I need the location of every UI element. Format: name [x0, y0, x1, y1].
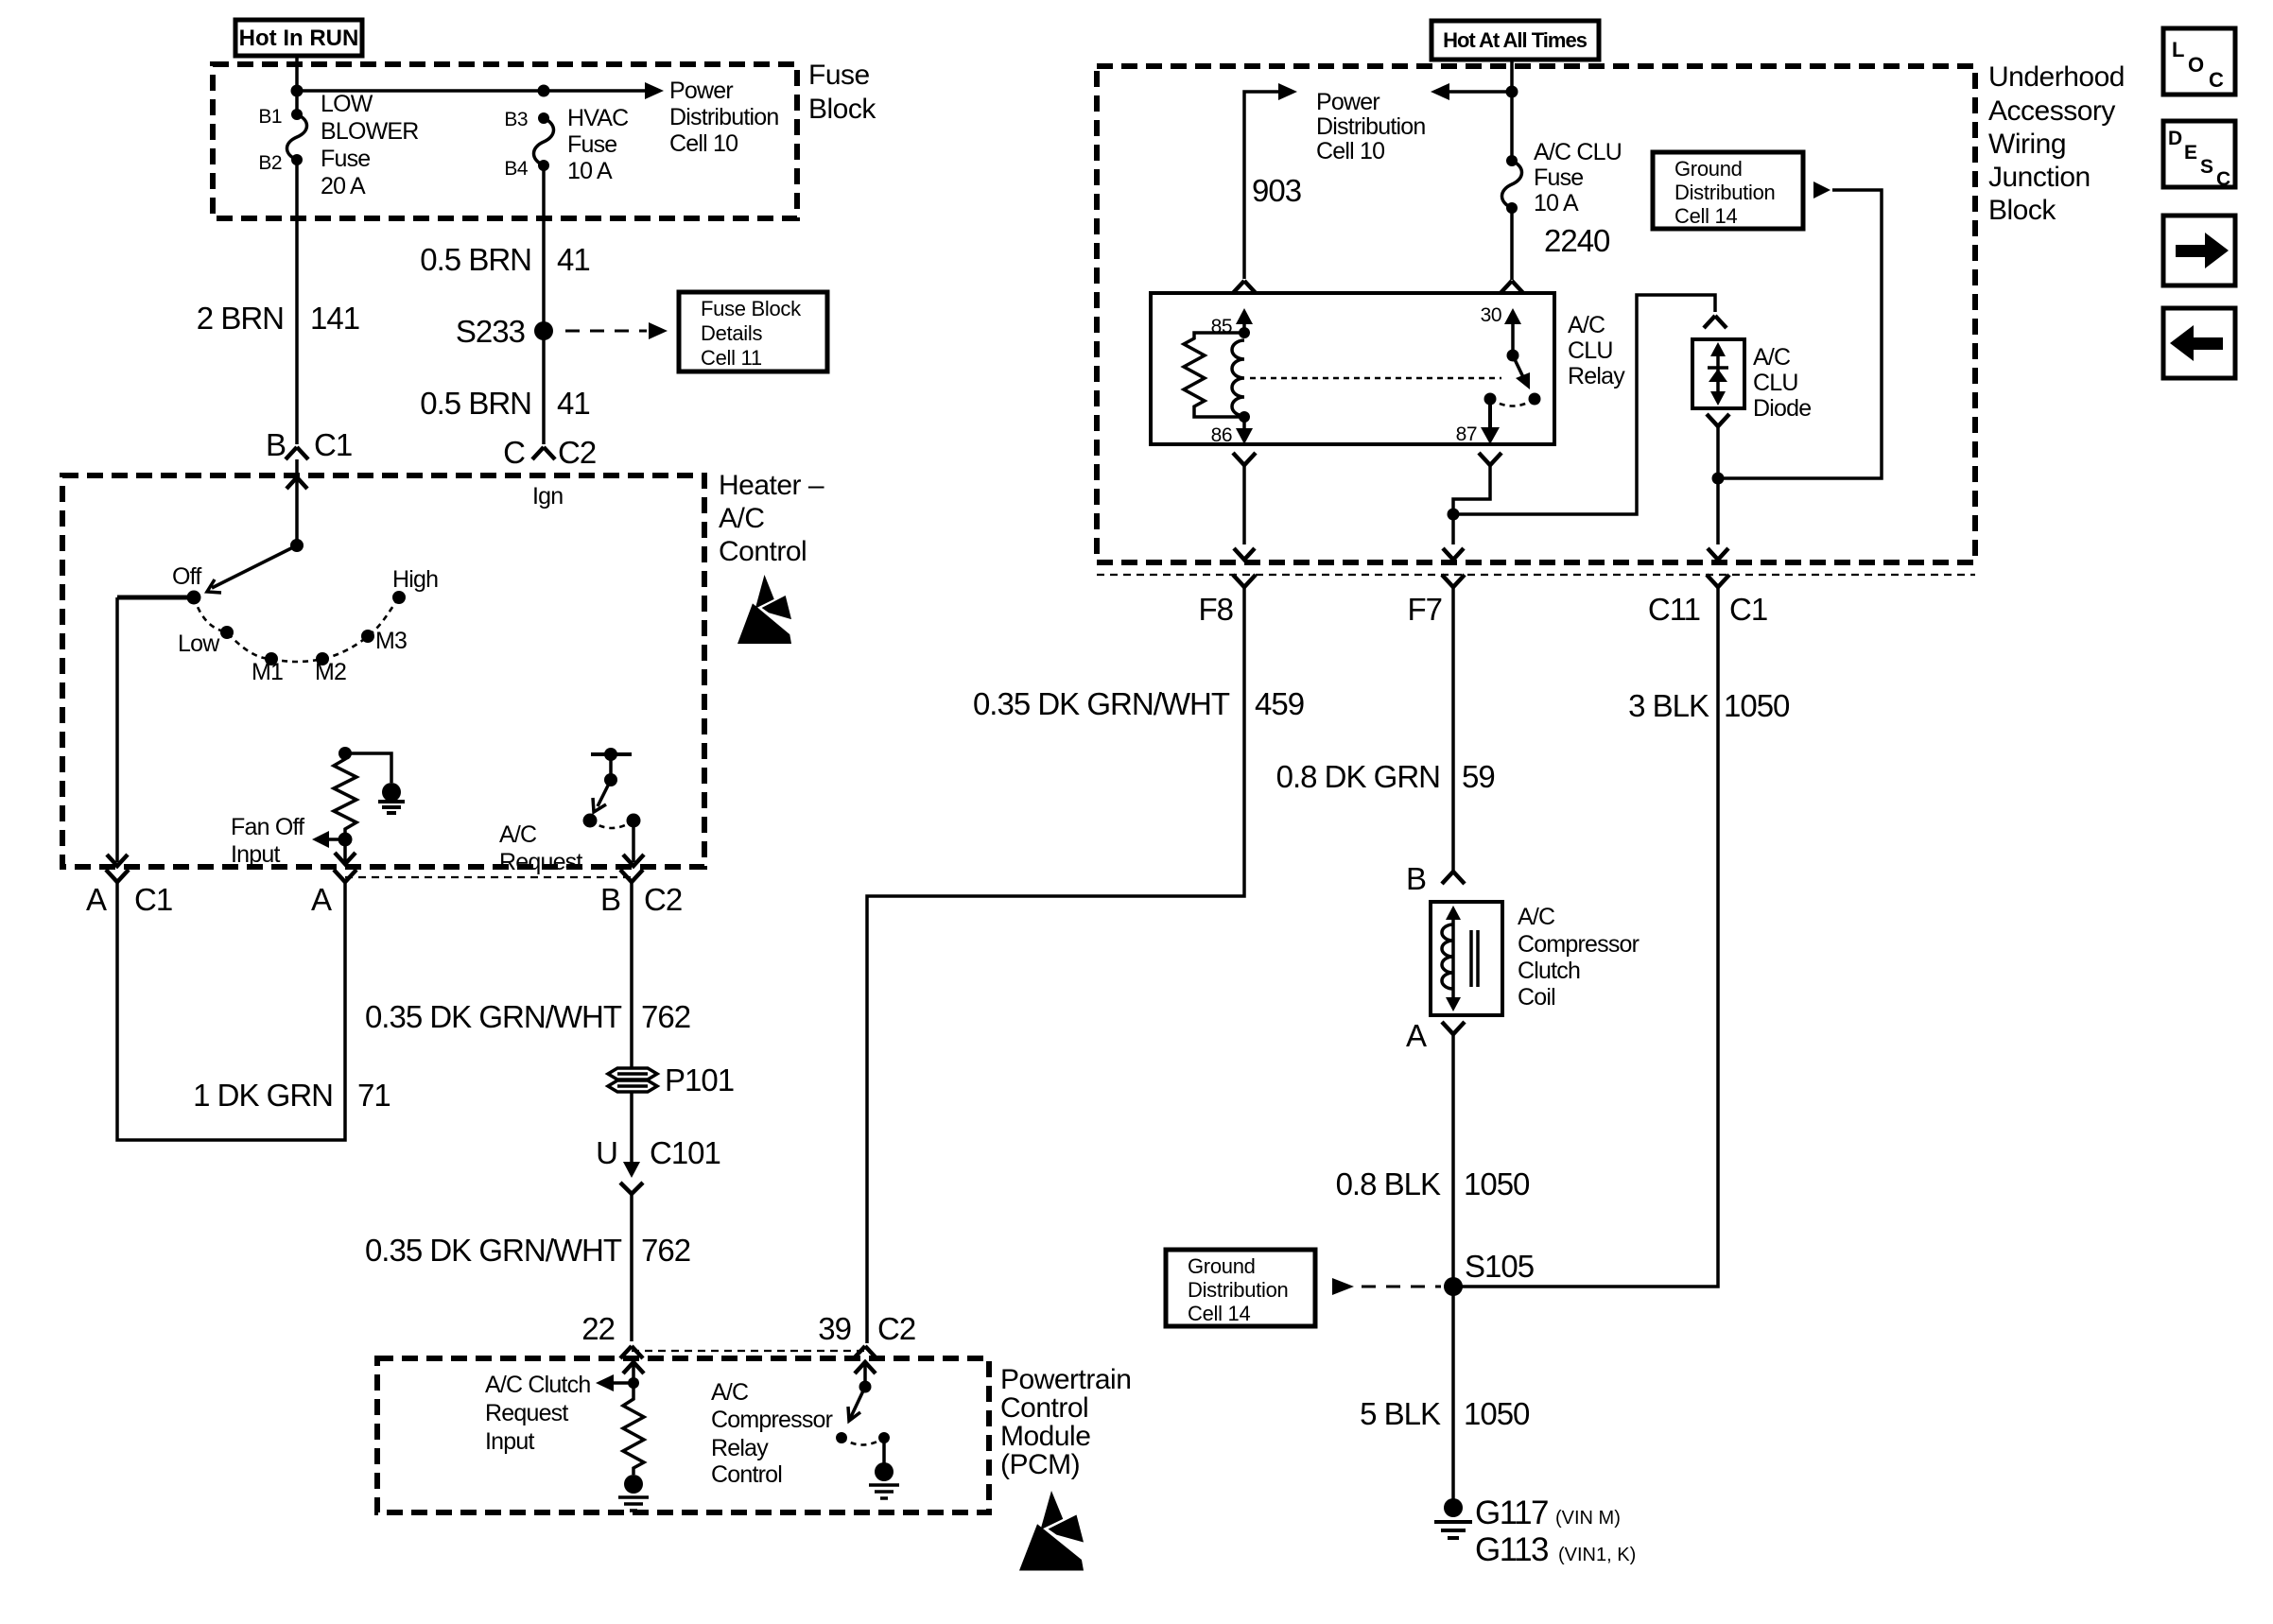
svg-text:0.35 DK GRN/WHT: 0.35 DK GRN/WHT [365, 999, 622, 1034]
svg-text:F7: F7 [1407, 592, 1442, 627]
svg-text:M1: M1 [252, 659, 283, 685]
label Power Distribution Cell 10 (right) [1316, 89, 1425, 164]
A/C Compressor Clutch Coil box [1431, 902, 1502, 1015]
svg-text:30: 30 [1481, 304, 1501, 326]
wire: to pin A with exit arrow [343, 839, 347, 862]
ground (resistor network) [378, 783, 405, 813]
svg-text:Block: Block [808, 94, 876, 125]
Off terminal [187, 591, 201, 605]
splice S233 [534, 321, 553, 340]
svg-text:M3: M3 [375, 628, 407, 654]
Fan Off Input arrow [329, 838, 345, 841]
svg-text:LOW: LOW [321, 91, 373, 117]
icon previous page arrow [2163, 308, 2235, 378]
svg-text:Cell 14: Cell 14 [1674, 204, 1737, 228]
A/C Request switch arm [598, 780, 611, 806]
svg-text:A/C Clutch: A/C Clutch [485, 1372, 590, 1398]
unit label Fuse Block [808, 60, 876, 125]
wire: Off terminal to pin A C1 [117, 596, 194, 600]
svg-text:10 A: 10 A [567, 158, 613, 184]
svg-text:Fuse: Fuse [567, 131, 616, 158]
terminal B3 [538, 112, 549, 124]
relay switch left contact [1484, 393, 1497, 406]
svg-text:Details: Details [701, 321, 762, 345]
wire: Hot At All Times feed down [1510, 60, 1514, 161]
pin F7 [1407, 575, 1465, 627]
wire label 0.8 BLK 1050 [1336, 1166, 1530, 1201]
label A/C Compressor Clutch Coil [1518, 904, 1640, 1011]
diode interior [1708, 342, 1728, 406]
connector pin C C2 [503, 435, 596, 470]
svg-text:D: D [2168, 128, 2182, 149]
svg-text:Coil: Coil [1518, 984, 1555, 1011]
svg-text:0.8 DK GRN: 0.8 DK GRN [1276, 759, 1440, 794]
svg-text:B4: B4 [504, 158, 529, 180]
svg-text:High: High [392, 566, 438, 593]
label A/C CLU Diode [1753, 344, 1811, 422]
terminal High [392, 591, 406, 604]
svg-text:Relay: Relay [711, 1435, 769, 1461]
arrow to power distribution (left) [1448, 90, 1512, 94]
selector positions dashed arc [194, 597, 399, 662]
svg-text:0.35 DK GRN/WHT: 0.35 DK GRN/WHT [973, 686, 1230, 721]
svg-text:903: 903 [1252, 173, 1301, 208]
svg-text:Input: Input [231, 841, 280, 868]
wire label 0.5 BRN 41 lower [420, 386, 589, 421]
svg-text:A/C: A/C [1568, 312, 1605, 338]
svg-text:B: B [600, 882, 620, 917]
svg-text:Junction: Junction [1988, 162, 2091, 193]
terminal A/C CLU fuse top [1506, 155, 1518, 166]
svg-text:Low: Low [178, 631, 220, 657]
connector C2 dashed tie at PCM [632, 1350, 865, 1352]
svg-text:Off: Off [172, 563, 201, 590]
svg-text:2240: 2240 [1544, 223, 1610, 258]
svg-text:Fuse: Fuse [321, 146, 370, 172]
A/C Request switch fixed contact bar [591, 752, 632, 756]
svg-text:S105: S105 [1465, 1249, 1534, 1284]
svg-text:1050: 1050 [1724, 688, 1790, 723]
terminal Low [220, 626, 234, 639]
A/C Request switch stub [609, 754, 613, 780]
svg-text:Request: Request [499, 849, 582, 875]
relay coil bottom junction [1239, 411, 1250, 423]
svg-text:C1: C1 [314, 427, 352, 462]
svg-text:P101: P101 [665, 1063, 734, 1097]
svg-text:Power: Power [1316, 89, 1379, 115]
wire: HVAC fuse output to connector C C2 [542, 165, 546, 444]
svg-text:1 DK GRN: 1 DK GRN [193, 1078, 333, 1113]
wire label 2 BRN 141 [197, 301, 359, 336]
svg-text:A/C: A/C [719, 503, 765, 534]
relay pin 87 exit arrow [1488, 399, 1492, 427]
relay pin 30 entry arrow [1511, 312, 1515, 355]
wire: F7 down to compressor clutch coil [1451, 587, 1455, 872]
relay actuate dashed link [1250, 377, 1501, 380]
svg-text:0.5 BRN: 0.5 BRN [420, 242, 531, 277]
svg-text:459: 459 [1255, 686, 1304, 721]
wire: B C1 into selector with entry arrow [295, 459, 299, 545]
wire: P101 to C101 [630, 1092, 633, 1163]
label LOW BLOWER Fuse 20 A [321, 91, 419, 199]
svg-text:10 A: 10 A [1534, 190, 1579, 216]
svg-text:Wiring: Wiring [1988, 129, 2066, 160]
clutch coil interior [1442, 906, 1478, 1011]
wire: 903 riser and arrow to Power Distribution [1244, 92, 1280, 279]
connector C2 dashed tie line [345, 876, 632, 878]
ESD symbol (heater control) [737, 575, 791, 644]
junction node at HVAC fuse tap [538, 85, 550, 97]
wire: C101 to PCM pin 22 [630, 1195, 633, 1341]
svg-text:C2: C2 [558, 435, 596, 470]
svg-text:A/C CLU: A/C CLU [1534, 139, 1622, 165]
blower resistor top junction [338, 747, 352, 760]
label Power Distribution Cell 10 [669, 78, 778, 157]
wire label 5 BLK 1050 [1360, 1396, 1530, 1431]
svg-text:B2: B2 [258, 152, 282, 174]
wire: C11 C1 down to S105 (3 BLK 1050) [1453, 587, 1718, 1287]
splice S105 [1444, 1277, 1463, 1296]
reference dashed arrow to Fuse Block Details [565, 330, 647, 333]
relay coil winding [1232, 340, 1244, 416]
label Fan Off Input [231, 814, 304, 868]
resistor (blower) [334, 753, 356, 834]
wire: right contact to ground [882, 1438, 886, 1463]
pin F8 [1198, 575, 1256, 627]
wire label 0.5 BRN 41 upper [420, 242, 589, 277]
svg-text:S: S [2200, 156, 2213, 178]
fan off input junction [338, 833, 353, 847]
svg-text:0.8 BLK: 0.8 BLK [1336, 1166, 1441, 1201]
connector tie line below junction block [1097, 574, 1975, 576]
svg-text:Cell 11: Cell 11 [701, 346, 762, 370]
svg-text:762: 762 [641, 999, 690, 1034]
label HVAC Fuse 10 A [567, 105, 629, 184]
icon DESC [2163, 121, 2235, 190]
resistor (clutch request pull) [623, 1383, 644, 1475]
svg-text:BLOWER: BLOWER [321, 118, 419, 145]
wire label 0.8 DK GRN 59 [1276, 759, 1495, 794]
svg-text:HVAC: HVAC [567, 105, 629, 131]
junction node at bus [291, 85, 304, 97]
svg-text:Heater –: Heater – [719, 470, 824, 501]
svg-text:0.5 BRN: 0.5 BRN [420, 386, 531, 421]
svg-text:5 BLK: 5 BLK [1360, 1396, 1441, 1431]
svg-text:Compressor: Compressor [711, 1407, 833, 1433]
svg-text:Cell 10: Cell 10 [1316, 138, 1384, 164]
fuse LOW BLOWER 20A element [287, 114, 307, 160]
svg-text:B3: B3 [504, 109, 528, 130]
svg-text:Ground: Ground [1188, 1254, 1256, 1278]
inline connector P101 [608, 1063, 734, 1097]
svg-text:M2: M2 [315, 659, 346, 685]
fuse HVAC 10A element [534, 118, 554, 165]
wire label 0.35 DK GRN/WHT 762 upper [365, 999, 690, 1034]
relay switch arm [1513, 355, 1523, 377]
wire: pin 87 jog to F7 [1453, 466, 1490, 544]
connector C101 pin U [596, 1135, 720, 1194]
ground G117 / G113 [1434, 1494, 1636, 1568]
svg-text:1050: 1050 [1464, 1166, 1530, 1201]
svg-text:2 BRN: 2 BRN [197, 301, 284, 336]
label A/C Compressor Relay Control [711, 1379, 833, 1488]
svg-text:141: 141 [310, 301, 359, 336]
svg-text:C: C [503, 435, 525, 470]
svg-text:C2: C2 [877, 1311, 915, 1346]
reference box Ground Distribution Cell 14 (lower) [1166, 1250, 1315, 1326]
A/C Clutch Request arrow [612, 1381, 633, 1385]
svg-text:Hot In RUN: Hot In RUN [239, 26, 359, 51]
terminal B2 [291, 154, 303, 165]
relay pin 85 entry arrow [1242, 312, 1246, 333]
svg-text:CLU: CLU [1753, 370, 1798, 396]
svg-text:F8: F8 [1198, 592, 1233, 627]
label A/C Request [499, 821, 582, 875]
svg-text:87: 87 [1456, 423, 1477, 445]
svg-text:A/C: A/C [1518, 904, 1555, 930]
connector chevron into relay (pin 85) [1233, 281, 1256, 293]
selector common junction [290, 539, 304, 552]
svg-text:Fuse: Fuse [1534, 164, 1583, 191]
svg-text:U: U [596, 1135, 617, 1170]
svg-text:C1: C1 [134, 882, 172, 917]
svg-text:Fuse Block: Fuse Block [701, 297, 802, 320]
reference box Ground Distribution Cell 14 (upper) [1653, 152, 1803, 229]
connector chevron below relay pin 86 [1233, 453, 1256, 465]
connector chevron into relay (pin 30) [1501, 281, 1523, 293]
svg-text:Control: Control [1000, 1392, 1088, 1424]
svg-text:59: 59 [1462, 759, 1495, 794]
ground (relay control) [869, 1462, 899, 1498]
pin A of clutch coil [1406, 1018, 1465, 1053]
connector pin A (heater out) [311, 870, 356, 917]
label Hot In RUN [235, 20, 362, 56]
icon LOC [2163, 28, 2235, 95]
svg-text:Clutch: Clutch [1518, 958, 1580, 984]
terminal A/C CLU fuse bottom [1506, 202, 1518, 214]
svg-text:S233: S233 [456, 314, 525, 349]
svg-text:0.35 DK GRN/WHT: 0.35 DK GRN/WHT [365, 1233, 622, 1268]
svg-text:L: L [2172, 38, 2184, 61]
reference dashed arrow from S105 to ground distribution [1332, 1278, 1354, 1295]
svg-text:Control: Control [711, 1461, 782, 1488]
pin 22 entry arrow [632, 1363, 635, 1383]
svg-text:Diode: Diode [1753, 395, 1811, 422]
wire: Hot In RUN feed down [295, 55, 299, 114]
A/C Request right contact [627, 814, 641, 828]
wire: diode to block edge C11 [1716, 427, 1720, 544]
relay switch pivot [1507, 350, 1519, 362]
reference box Fuse Block Details Cell 11 [679, 292, 827, 371]
terminal B1 [291, 109, 303, 120]
svg-text:C101: C101 [650, 1135, 720, 1170]
svg-text:22: 22 [581, 1311, 615, 1346]
wire: fuse to relay pin 30 [1510, 208, 1514, 280]
svg-text:Power: Power [669, 78, 733, 104]
wire: pin 86 to block edge F8 [1242, 466, 1246, 544]
svg-text:Ground: Ground [1674, 157, 1743, 181]
wire: bus to power distribution arrow [297, 89, 647, 93]
connector pin B C2 (heater out) [600, 870, 682, 917]
svg-text:762: 762 [641, 1233, 690, 1268]
pin 22 [581, 1311, 643, 1358]
svg-text:Powertrain: Powertrain [1000, 1364, 1131, 1395]
junction at feed [1506, 86, 1518, 98]
svg-text:O: O [2188, 53, 2204, 77]
connector chevron below diode [1707, 414, 1729, 426]
PCM enclosure [377, 1358, 989, 1512]
svg-text:A: A [311, 882, 332, 917]
svg-text:C2: C2 [644, 882, 682, 917]
svg-text:3 BLK: 3 BLK [1628, 688, 1709, 723]
svg-text:C: C [2216, 168, 2230, 190]
wire label 3 BLK 1050 [1628, 688, 1790, 723]
connector chevron into diode [1704, 316, 1726, 328]
relay switch dashed throw arc [1490, 399, 1535, 406]
svg-text:41: 41 [557, 386, 590, 421]
svg-text:A: A [1406, 1018, 1427, 1053]
svg-text:B: B [266, 427, 286, 462]
A/C Request dashed throw arc [590, 821, 633, 828]
label Hot At All Times [1431, 21, 1599, 60]
svg-text:(VIN M): (VIN M) [1555, 1508, 1621, 1529]
wire: pin B C2 down to P101 [630, 882, 633, 1068]
relay control dashed throw arc [842, 1438, 884, 1445]
svg-text:Accessory: Accessory [1988, 95, 2115, 127]
svg-text:G117: G117 [1475, 1494, 1548, 1531]
relay switch right contact [1529, 393, 1541, 406]
junction block enclosure [1097, 66, 1975, 562]
wire: branch to diode [1453, 295, 1715, 514]
Heater A/C Control enclosure [62, 475, 704, 867]
connector pin A C1 (heater out) [86, 870, 172, 917]
fuse A/C CLU 10A element [1502, 161, 1522, 208]
A/C clutch request junction [628, 1377, 639, 1389]
svg-text:C11: C11 [1648, 592, 1700, 627]
svg-text:C1: C1 [1729, 592, 1767, 627]
junction at F7 branch [1448, 509, 1460, 521]
svg-text:39: 39 [818, 1311, 851, 1346]
relay pin 86 exit arrow [1242, 417, 1246, 429]
svg-text:(PCM): (PCM) [1000, 1449, 1080, 1480]
unit label Powertrain Control Module (PCM) [1000, 1364, 1131, 1480]
wire: coil pin A down to S105 [1451, 1035, 1455, 1287]
pin B of clutch coil [1406, 861, 1465, 896]
relay control switch pivot [859, 1381, 872, 1393]
svg-text:Fuse: Fuse [808, 60, 870, 91]
svg-text:CLU: CLU [1568, 337, 1613, 364]
svg-text:Distribution: Distribution [1188, 1278, 1288, 1302]
wire: S105 to ground G117 [1451, 1287, 1455, 1503]
pin 39 C2 [818, 1311, 915, 1358]
connector pin B C1 [266, 427, 352, 462]
svg-text:Input: Input [485, 1428, 534, 1455]
relay shunt resistor [1184, 333, 1244, 417]
relay control left contact [836, 1432, 847, 1443]
svg-text:1050: 1050 [1464, 1396, 1530, 1431]
label A/C CLU Fuse 10 A [1534, 139, 1622, 216]
icon next page arrow [2163, 216, 2235, 285]
svg-text:Request: Request [485, 1400, 568, 1426]
wire: right contact down to pin B with exit arrow [632, 821, 635, 862]
svg-text:41: 41 [557, 242, 590, 277]
svg-text:E: E [2184, 142, 2197, 164]
svg-text:Ign: Ign [532, 483, 563, 510]
svg-text:86: 86 [1211, 424, 1232, 446]
wire label 1 DK GRN 71 [193, 1078, 390, 1113]
svg-text:Distribution: Distribution [1674, 181, 1775, 204]
svg-text:Distribution: Distribution [1316, 113, 1425, 140]
connector chevron below relay pin 87 [1479, 453, 1501, 465]
svg-text:20 A: 20 A [321, 173, 366, 199]
svg-text:Module: Module [1000, 1421, 1090, 1452]
junction at ground distribution branch [1712, 473, 1725, 485]
svg-text:Compressor: Compressor [1518, 931, 1640, 958]
selector wiper arm toward Off [212, 545, 297, 588]
diode box A/C CLU Diode [1692, 339, 1744, 408]
svg-text:Relay: Relay [1568, 363, 1625, 389]
unit label Underhood Accessory Wiring Junction Block [1988, 61, 2125, 226]
relay coil top junction [1239, 327, 1250, 338]
svg-text:Hot At All Times: Hot At All Times [1443, 28, 1588, 52]
wire label 0.35 DK GRN/WHT 459 [973, 686, 1304, 721]
ground (clutch request) [618, 1475, 649, 1511]
svg-text:Underhood: Underhood [1988, 61, 2125, 93]
terminal B4 [538, 160, 549, 171]
relay box A/C CLU Relay [1151, 293, 1554, 444]
label A/C Clutch Request Input [485, 1372, 590, 1455]
svg-text:Cell 10: Cell 10 [669, 130, 737, 157]
svg-text:(VIN1, K): (VIN1, K) [1558, 1545, 1636, 1565]
fuse block enclosure [213, 64, 797, 218]
wire: branch to ground distribution arrow [1718, 190, 1882, 478]
terminal M1 [265, 652, 278, 665]
svg-text:Control: Control [719, 536, 807, 567]
wire: F8 down and over to PCM pin 39 [867, 587, 1244, 1343]
unit label Heater A/C Control [719, 470, 824, 567]
svg-text:B: B [1406, 861, 1426, 896]
wire label 0.35 DK GRN/WHT 762 lower [365, 1233, 690, 1268]
svg-text:C: C [2209, 68, 2224, 92]
svg-text:A/C: A/C [499, 821, 537, 848]
A/C Request left contact [583, 814, 598, 828]
ESD symbol (PCM) [1019, 1491, 1084, 1570]
svg-text:A/C: A/C [1753, 344, 1791, 371]
relay control switch arm [849, 1387, 865, 1421]
svg-text:A/C: A/C [711, 1379, 749, 1406]
pin C11 C1 [1648, 575, 1767, 627]
wire: LOW BLOWER fuse output to connector B C1 [295, 160, 299, 444]
svg-text:71: 71 [357, 1078, 390, 1113]
svg-text:G113: G113 [1475, 1531, 1548, 1568]
svg-text:Cell 14: Cell 14 [1188, 1302, 1250, 1325]
relay control right contact [878, 1432, 890, 1443]
svg-text:A: A [86, 882, 107, 917]
svg-text:Distribution: Distribution [669, 104, 778, 130]
svg-text:B1: B1 [258, 106, 282, 128]
svg-text:Fan Off: Fan Off [231, 814, 304, 840]
arrowhead to Power Distribution [645, 82, 664, 99]
label A/C CLU Relay [1568, 312, 1625, 389]
svg-text:Block: Block [1988, 195, 2056, 226]
wire: junction to ground branch [345, 753, 391, 783]
terminal M3 [361, 630, 374, 643]
wire: U loop pin A C1 to pin A (1 DK GRN 71) [117, 882, 345, 1140]
pin 39 entry arrow [863, 1363, 867, 1387]
terminal M2 [316, 652, 329, 665]
